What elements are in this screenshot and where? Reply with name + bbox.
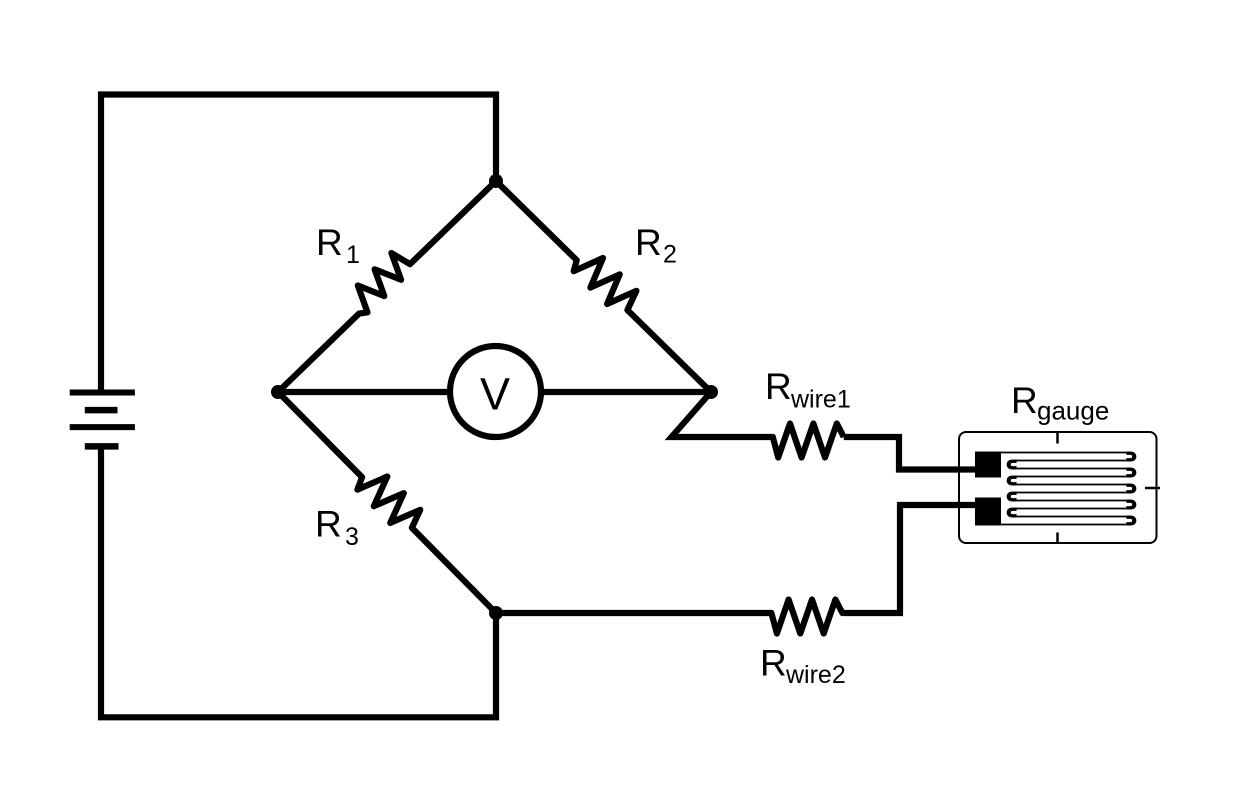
battery B1 short plate 2 <box>85 443 119 450</box>
gauge alignment tick bottom <box>1056 533 1059 544</box>
wire: right node diagonal down to Rwire1 lead <box>672 392 773 437</box>
wire: Rwire2 up to gauge bottom terminal <box>844 505 988 613</box>
svg-text:wire1: wire1 <box>790 386 851 414</box>
svg-text:gauge: gauge <box>1037 396 1109 426</box>
resistor Rwire2 <box>770 600 844 634</box>
svg-text:R: R <box>760 643 787 684</box>
gauge terminal pad top <box>975 452 1001 478</box>
gauge alignment tick right <box>1145 487 1160 490</box>
svg-text:1: 1 <box>346 241 360 269</box>
svg-text:R: R <box>316 222 343 263</box>
svg-text:3: 3 <box>345 523 359 551</box>
node: left junction <box>271 385 285 399</box>
resistor R1 <box>278 181 496 392</box>
gauge serpentine u-turns <box>1009 453 1134 524</box>
resistor R2 <box>496 181 711 392</box>
svg-text:wire2: wire2 <box>785 661 846 689</box>
strain gauge Rgauge body <box>959 432 1157 543</box>
svg-text:V: V <box>480 368 510 419</box>
resistor R3 <box>278 392 496 613</box>
wire: battery positive up and across to top node <box>101 95 496 394</box>
wire: Rwire1 to gauge top terminal <box>844 437 988 470</box>
wire: voltmeter to right node <box>520 389 711 395</box>
wire: bottom node to Rwire2 lead <box>496 610 770 616</box>
node: top junction <box>489 174 503 188</box>
svg-text:2: 2 <box>663 241 677 269</box>
battery B1 long plate 2 <box>70 424 135 430</box>
svg-text:R: R <box>1011 380 1038 421</box>
wire: battery negative down and across to bottom node <box>101 446 496 717</box>
gauge alignment tick top <box>1056 432 1059 444</box>
gauge terminal pad bottom <box>975 498 1001 526</box>
voltmeter U1 circle <box>450 346 541 437</box>
battery B1 short plate 1 <box>85 407 118 414</box>
svg-text:R: R <box>635 222 662 263</box>
resistor Rwire1 <box>773 424 844 458</box>
svg-text:R: R <box>765 366 792 407</box>
node: right junction <box>704 385 718 399</box>
battery B1 long plate 1 <box>70 390 135 396</box>
node: bottom junction <box>489 606 503 620</box>
svg-text:R: R <box>315 504 342 545</box>
wire: left node to voltmeter <box>278 389 470 395</box>
gauge serpentine element <box>1001 453 1136 525</box>
